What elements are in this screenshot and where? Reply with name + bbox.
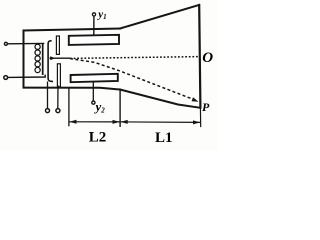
screen extension line down to dimension	[199, 108, 201, 127]
svg-text:L2: L2	[89, 130, 107, 146]
grid lead down through box to pin	[57, 85, 59, 108]
L2 dimension line with arrows	[69, 120, 119, 124]
heater coil loops	[35, 44, 40, 72]
svg-text:y2: y2	[94, 99, 106, 115]
cathode (bracket shape)	[48, 41, 53, 82]
svg-text:y1: y1	[96, 9, 106, 22]
y2 lead down to terminal	[92, 82, 94, 101]
svg-text:O: O	[202, 50, 213, 66]
heater terminal 2 (left lower)	[4, 76, 8, 80]
y1 terminal circle	[92, 13, 95, 16]
cathode lead down through box to pin	[47, 82, 49, 109]
CRT screen	[199, 5, 200, 108]
heater coil right rail	[42, 43, 44, 75]
lower deflection plate y2	[71, 74, 118, 82]
beam arrowhead	[50, 56, 55, 60]
CRT envelope: neck box bottom edge	[24, 88, 121, 90]
CRT envelope: neck box top edge	[24, 29, 121, 88]
cathode pin circle	[46, 109, 50, 113]
wire from terminal 1 to heater coil	[8, 42, 45, 44]
CRT funnel bottom line	[120, 90, 200, 108]
extension line at plate start (L2 left)	[68, 89, 70, 127]
y2 terminal circle	[92, 101, 95, 104]
svg-text:L1: L1	[155, 130, 173, 146]
grid pin circle	[56, 109, 60, 113]
heater terminal 1 (left upper)	[4, 42, 7, 45]
dotted axis line to O	[70, 57, 199, 59]
svg-text:P: P	[202, 100, 210, 114]
grid/anode bar lower segment	[57, 64, 60, 87]
arrowhead of deflected beam at P	[192, 97, 199, 102]
extension line at plate end / funnel kink (L2/L1)	[119, 91, 121, 128]
upper deflection plate y1	[69, 35, 119, 45]
grid/anode bar upper segment	[56, 36, 59, 54]
dashed deflected beam to P	[70, 59, 197, 101]
electron beam line from cathode to plates	[50, 57, 71, 59]
CRT funnel top line	[120, 5, 199, 29]
y1 lead up to terminal	[93, 16, 95, 35]
wire from terminal 2 to heater coil bottom	[8, 75, 46, 78]
L1 dimension line with arrows	[121, 120, 201, 125]
